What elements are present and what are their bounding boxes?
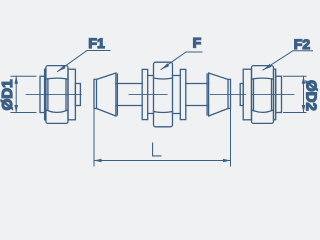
- svg-text:F1: F1: [88, 35, 105, 51]
- left nut hex separator right: [65, 79, 67, 110]
- arrowhead F2: [263, 64, 271, 70]
- middle hex chamfer bottom: [154, 112, 173, 113]
- leader F: [161, 52, 202, 70]
- left nut hex chamfer top: [46, 77, 67, 80]
- middle left cone: [97, 73, 116, 116]
- dim OD1 line: [15, 76, 17, 112]
- middle left ridge second line: [116, 74, 118, 115]
- centerline segment 3: [211, 93, 246, 95]
- middle hex body: [154, 62, 173, 127]
- middle left washer: [142, 69, 148, 119]
- middle hex chamfer top: [154, 78, 173, 79]
- middle right neck: [186, 84, 209, 106]
- dim OD2 extension top: [284, 75, 307, 77]
- left nut hex separator left: [47, 79, 49, 110]
- middle right washer: [180, 69, 186, 119]
- dim L line: [94, 160, 231, 162]
- label L: [153, 143, 161, 156]
- dim OD1 extension top: [11, 75, 36, 77]
- dim OD1 arrow down: [14, 105, 18, 113]
- right nut hex chamfer bottom: [252, 110, 273, 112]
- middle left connector: [148, 76, 154, 114]
- middle right ridge second line: [206, 74, 208, 115]
- middle left tip disc: [94, 79, 97, 108]
- dim OD2 arrow up: [302, 76, 306, 84]
- svg-text:ØD2: ØD2: [303, 80, 320, 111]
- dim L arrow left: [94, 159, 102, 163]
- right nut collar: [243, 69, 251, 120]
- dim L extension right: [230, 109, 232, 167]
- centerline segment 2: [129, 93, 167, 95]
- middle right connector: [173, 76, 181, 114]
- left nut ring B: [45, 69, 46, 120]
- dim OD1 arrow up: [14, 76, 18, 84]
- dim OD2 line: [303, 76, 305, 112]
- arrowhead F: [161, 63, 169, 69]
- dim OD2 extension bottom: [284, 112, 307, 114]
- left nut tube stub: [75, 84, 80, 106]
- right nut hex separator left: [253, 79, 255, 110]
- svg-text:F2: F2: [294, 36, 311, 52]
- svg-text:ØD1: ØD1: [0, 80, 16, 111]
- arrowhead F1: [58, 65, 66, 71]
- right nut small ring: [276, 76, 282, 112]
- middle right cone: [209, 73, 228, 116]
- middle left neck: [116, 84, 142, 106]
- left nut hex body: [46, 66, 68, 124]
- dim OD2 arrow down: [302, 105, 306, 113]
- middle right tip disc: [228, 79, 231, 108]
- dim L extension left: [93, 109, 95, 167]
- right nut hex body: [252, 66, 274, 124]
- right nut ring B: [274, 69, 276, 120]
- right nut hex chamfer top: [252, 77, 273, 80]
- left nut small ring: [40, 76, 45, 112]
- left nut hex chamfer bottom: [46, 110, 67, 112]
- centerline segment 4: [252, 93, 294, 95]
- svg-text:F: F: [193, 35, 202, 51]
- leader F2: [263, 51, 313, 70]
- dim L arrow right: [223, 159, 231, 163]
- centerline segment 1: [26, 93, 81, 95]
- right nut tube stub: [240, 84, 243, 106]
- dim OD1 extension bottom: [11, 112, 36, 114]
- left nut collar: [68, 69, 75, 120]
- leader F1: [58, 51, 111, 72]
- right nut hex separator right: [271, 79, 273, 110]
